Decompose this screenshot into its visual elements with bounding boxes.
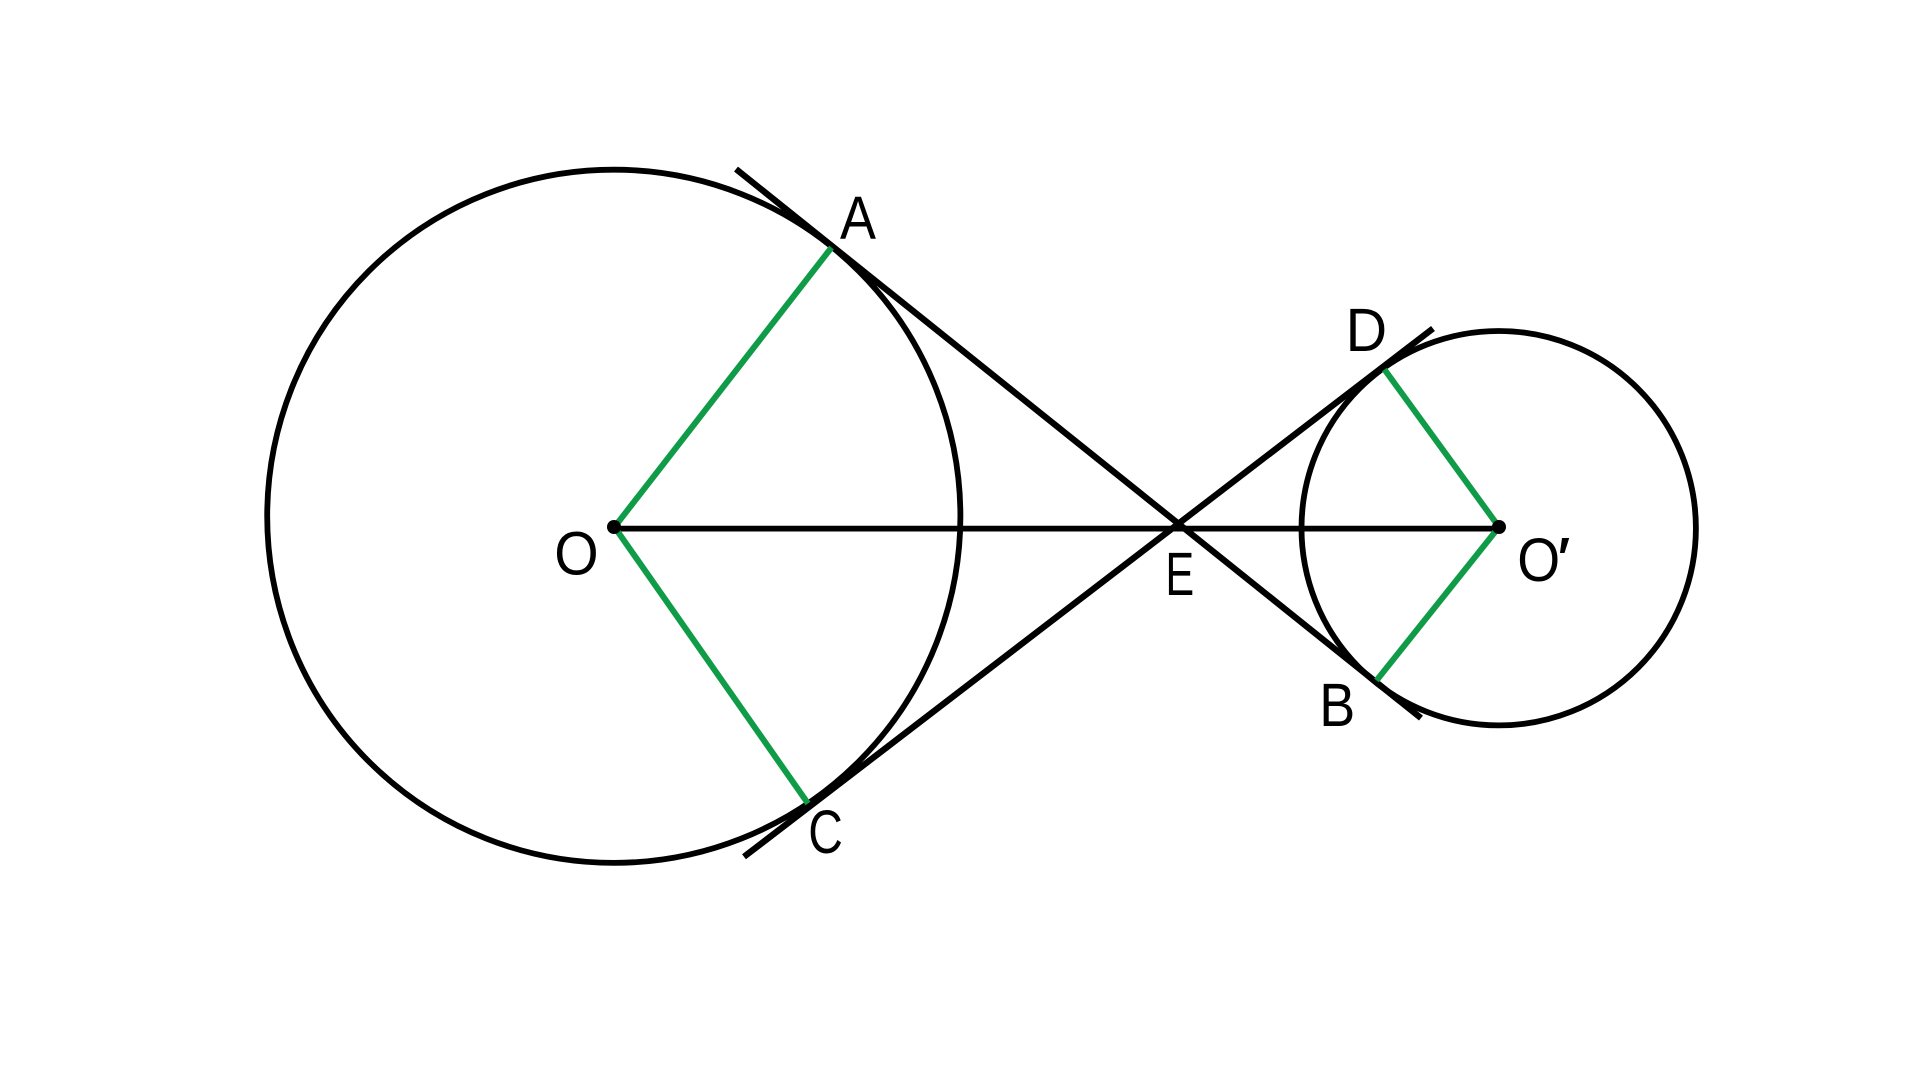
wire radius O'D (green) [1385,370,1500,528]
wire radius OC (green) [615,527,809,804]
node O' prime mark [1560,538,1569,553]
node O' center dot [1492,520,1506,534]
wire radius O'B (green) [1377,527,1500,681]
svg-text:D: D [1346,296,1388,365]
svg-text:C: C [808,798,843,867]
circle O' (small, right) [1302,331,1696,725]
svg-text:B: B [1319,671,1355,740]
svg-text:O: O [1517,526,1560,595]
svg-text:O: O [554,520,598,589]
circle O (large, left) [267,170,960,863]
wire line OO' through E [615,526,1500,532]
node O center dot [607,520,621,534]
wire tangent line C-E-D [744,329,1433,857]
wire tangent line A-E-B [736,169,1421,718]
wire radius OA (green) [615,248,832,528]
svg-text:A: A [840,184,876,253]
svg-text:E: E [1165,540,1194,609]
